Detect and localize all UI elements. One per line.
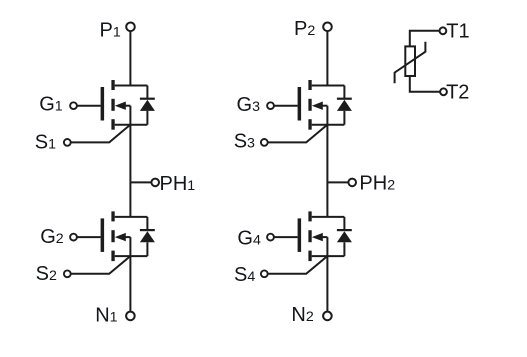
terminal T2 (440, 88, 447, 95)
svg-text:N1: N1 (95, 304, 117, 326)
terminal N2 (323, 312, 332, 321)
wire Q4 source to N2 (326, 237, 328, 312)
terminal P2 (323, 23, 332, 32)
svg-text:T2: T2 (446, 82, 469, 104)
svg-text:S2: S2 (36, 263, 57, 285)
svg-text:S1: S1 (35, 132, 56, 154)
terminal P1 (126, 23, 135, 32)
svg-text:G4: G4 (237, 228, 261, 250)
transistor Q2 low-side left half-bridge (64, 211, 155, 277)
thermistor RT1 strike (395, 42, 426, 84)
terminal N1 (126, 312, 135, 321)
svg-text:T1: T1 (446, 20, 469, 42)
svg-text:G3: G3 (237, 94, 261, 116)
svg-text:S4: S4 (234, 264, 255, 286)
transistor Q3 high-side right half-bridge (261, 80, 352, 146)
terminal PH1 (151, 179, 159, 187)
svg-text:PH1: PH1 (160, 173, 196, 195)
wire P2 to Q3 drain (326, 31, 328, 85)
wire Q1 source to Q2 drain (PH1 rail) (129, 106, 131, 217)
svg-text:P1: P1 (100, 19, 121, 41)
svg-text:PH2: PH2 (359, 172, 395, 194)
wire Q3 source to Q4 drain (PH2 rail) (326, 106, 328, 217)
thermistor RT1 body (405, 46, 415, 76)
svg-text:S3: S3 (234, 130, 255, 152)
terminal T1 (440, 27, 447, 34)
wire PH1 stub (130, 181, 151, 183)
terminal PH2 (348, 179, 356, 187)
transistor Q1 high-side left half-bridge (64, 80, 155, 146)
svg-text:G2: G2 (40, 226, 64, 248)
wire P1 to Q1 drain (129, 31, 131, 85)
transistor Q4 low-side right half-bridge (261, 211, 352, 277)
svg-text:N2: N2 (291, 304, 313, 326)
wire thermistor to T2 (410, 76, 440, 92)
wire PH2 stub (327, 181, 348, 183)
svg-text:G1: G1 (39, 93, 63, 115)
svg-text:P2: P2 (294, 18, 315, 40)
wire Q2 source to N1 (129, 237, 131, 312)
wire T1 to thermistor (410, 31, 440, 47)
